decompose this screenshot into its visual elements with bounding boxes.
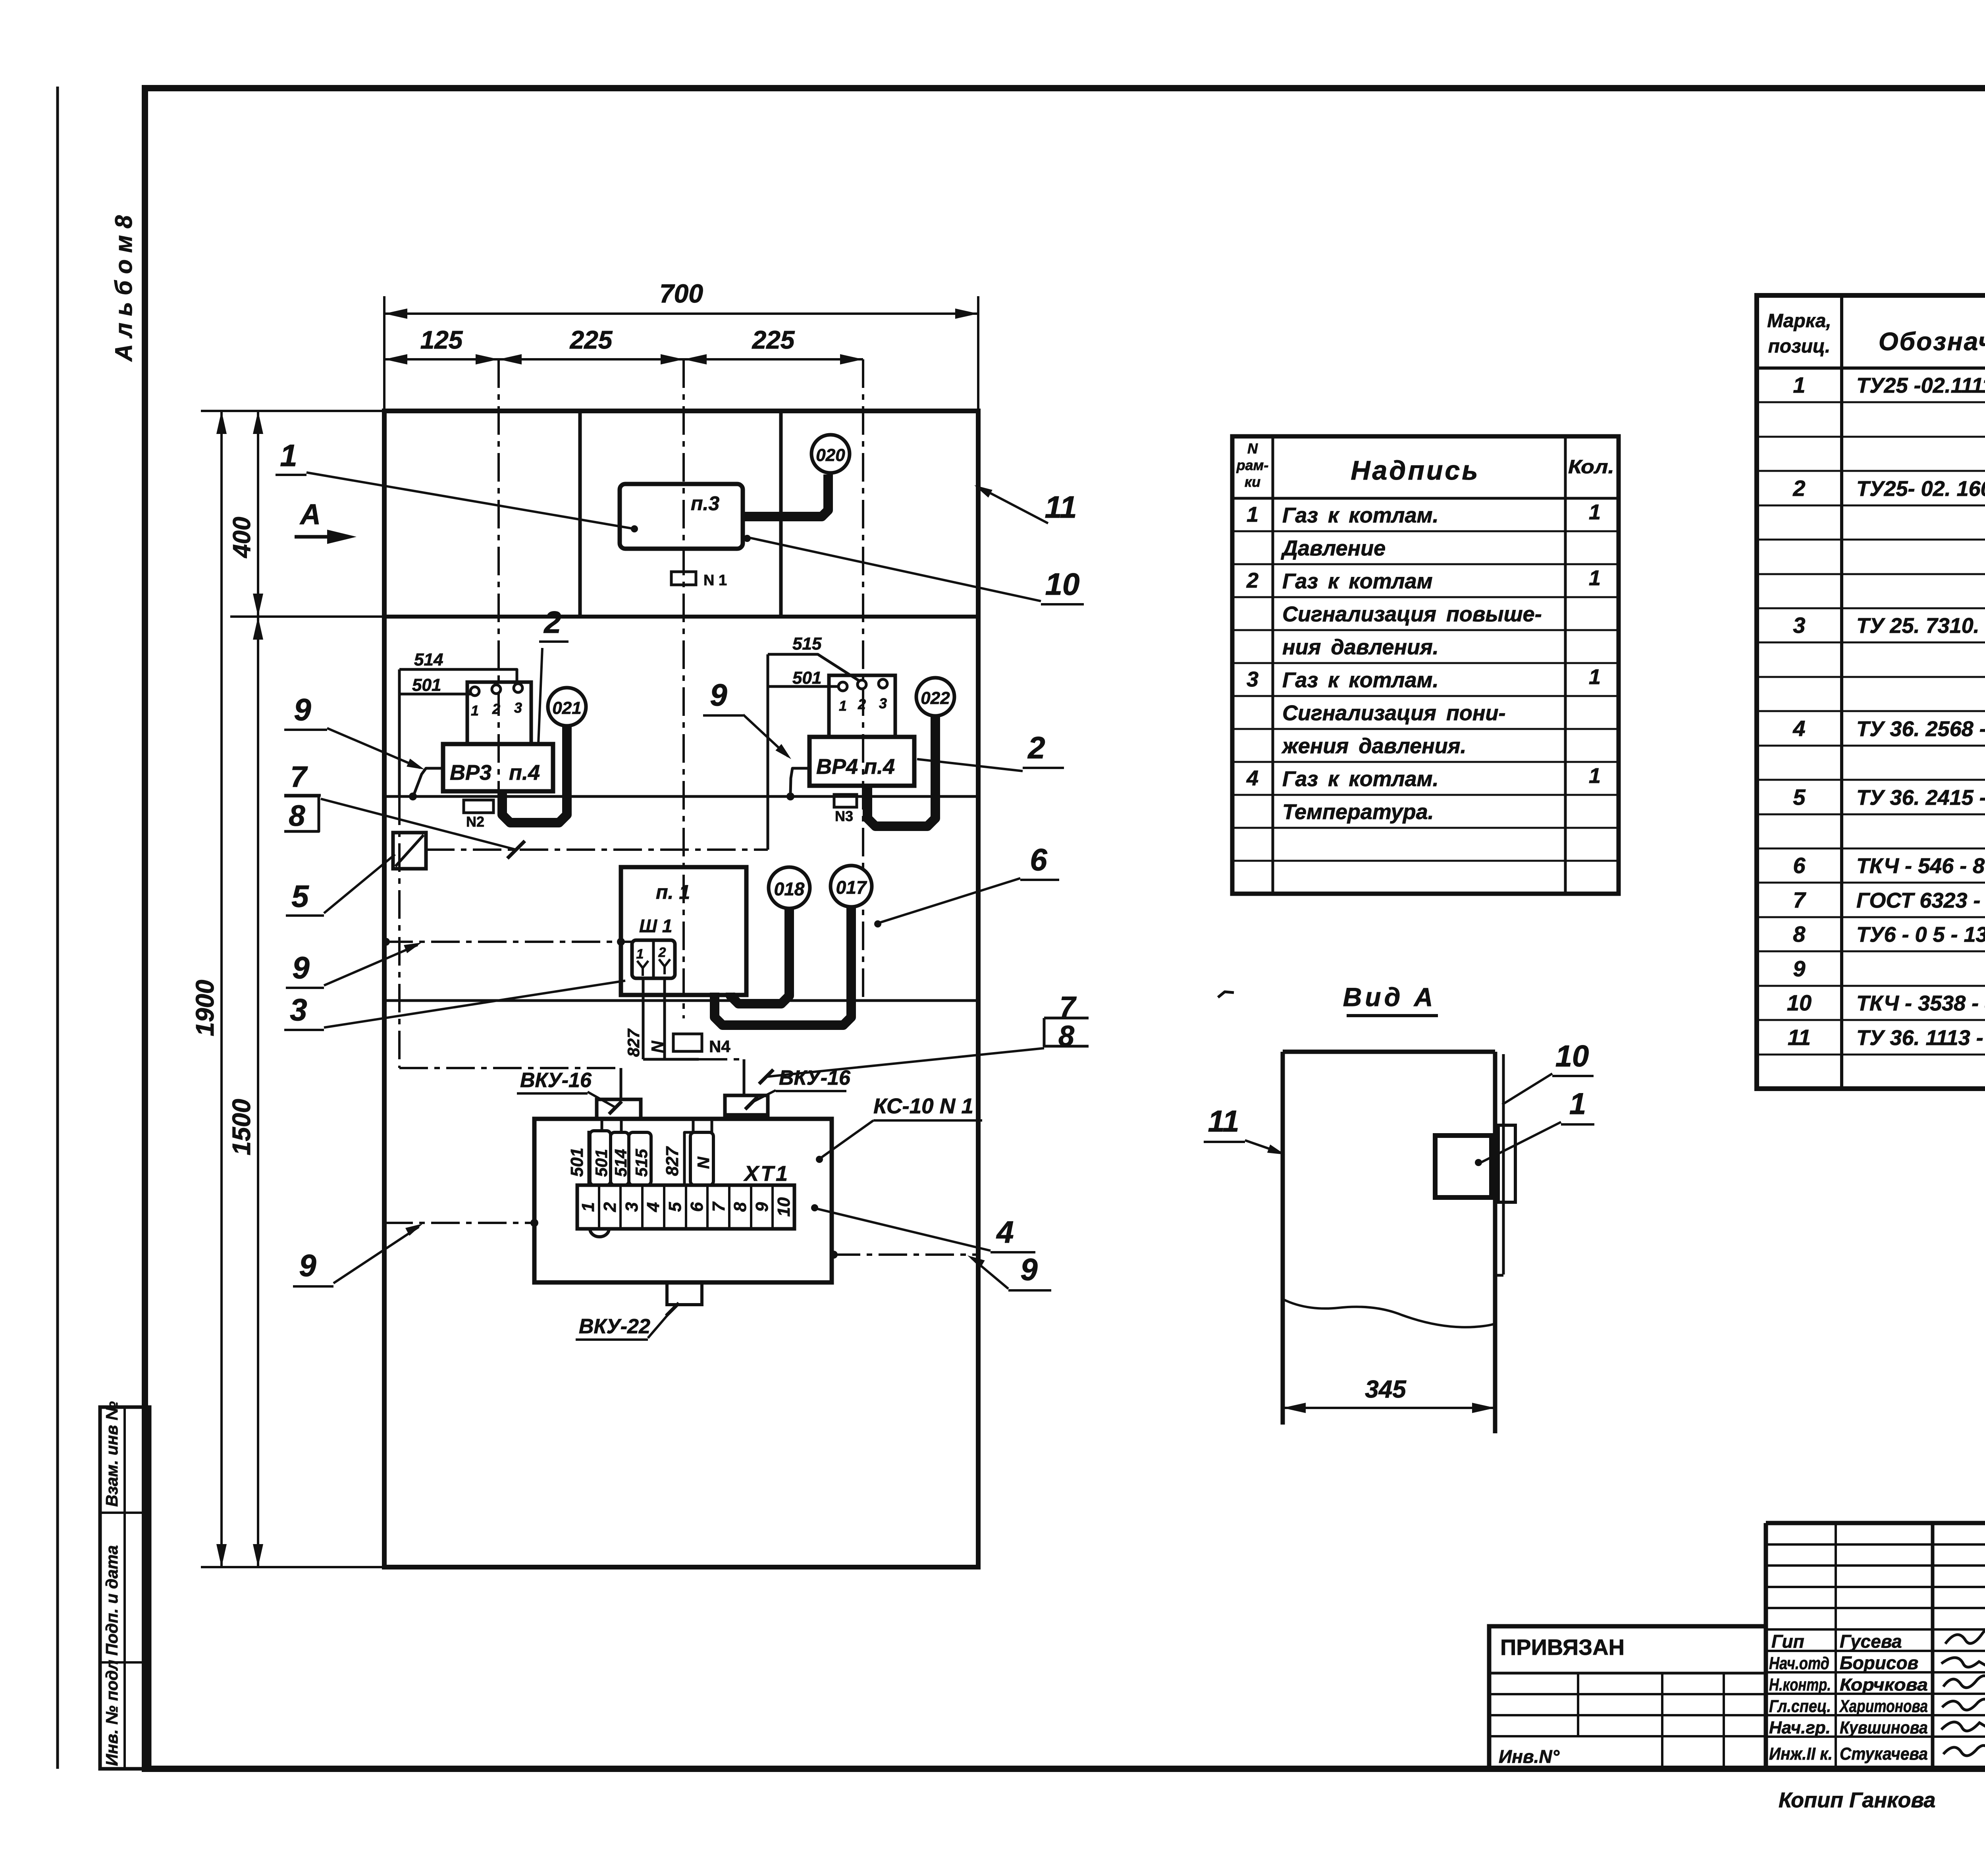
svg-text:3: 3 [1793, 613, 1805, 638]
parts row line 19 [1757, 1019, 1985, 1021]
XT1 divider 5 [685, 1185, 687, 1229]
thick tubing p.3 to 020 [743, 474, 828, 517]
dash-dot bus into Sh1 y2372 [384, 941, 632, 943]
panel horizontal joint y1553 [384, 615, 978, 619]
svg-text:Температура.: Температура. [1282, 800, 1434, 824]
signature squiggle 4 [1942, 1699, 1985, 1710]
svg-text:501: 501 [592, 1149, 611, 1177]
svg-text:7: 7 [1793, 887, 1806, 912]
svg-text:Гип: Гип [1771, 1631, 1804, 1652]
KC-10 junction box [534, 1119, 832, 1282]
parts row line 2 [1757, 436, 1985, 438]
nadpis col line 2 [1564, 436, 1567, 894]
svg-text:1: 1 [839, 698, 847, 714]
dimension 700 line [384, 312, 978, 315]
junction dot VR3 bus [409, 792, 417, 800]
svg-text:ТУ25- 02. 160217 -83: ТУ25- 02. 160217 -83 [1856, 477, 1985, 501]
Sh1 connector box [632, 940, 675, 978]
svg-text:501: 501 [567, 1148, 587, 1177]
VR3 terminal 3 [514, 684, 522, 692]
nadpis row line 8 [1232, 761, 1619, 763]
vid A channel strip [1502, 1054, 1505, 1274]
thick tubing VR3 to 021 [502, 727, 567, 823]
wire tag N4 box [673, 1034, 702, 1051]
svg-text:Взам. инв №: Взам. инв № [102, 1401, 121, 1507]
XT1 divider 6 [706, 1185, 709, 1229]
svg-text:6: 6 [687, 1202, 707, 1212]
svg-text:11: 11 [1045, 490, 1077, 524]
parts row line 13 [1757, 814, 1985, 816]
clamp diagonal [395, 835, 424, 866]
parts row line 7 [1757, 607, 1985, 609]
svg-text:А л ь б о м 8: А л ь б о м 8 [110, 215, 137, 362]
svg-text:515: 515 [632, 1149, 651, 1177]
Sh1 divider [652, 940, 655, 978]
nadpis row line 3 [1232, 596, 1619, 598]
svg-text:1: 1 [578, 1202, 598, 1212]
dimension 400 line [257, 411, 259, 617]
svg-text:Гл.спец.: Гл.спец. [1769, 1697, 1831, 1716]
instrument p.1 box [621, 867, 746, 995]
svg-text:ВКУ-16: ВКУ-16 [779, 1066, 851, 1089]
svg-text:11: 11 [1208, 1105, 1239, 1138]
svg-text:Марка,: Марка, [1767, 310, 1831, 332]
svg-text:Давление: Давление [1281, 536, 1386, 560]
small datum tick [1218, 992, 1234, 997]
svg-text:позиц.: позиц. [1768, 336, 1831, 357]
nadpis row line 2 [1232, 563, 1619, 565]
dimension 700 extension left [383, 296, 385, 411]
svg-text:7: 7 [290, 760, 308, 793]
svg-text:1: 1 [636, 947, 644, 962]
parts row line 9 [1757, 676, 1985, 678]
VR3 relay box [443, 744, 553, 791]
XT1 divider 9 [771, 1185, 774, 1229]
dash-dot bus to VKU16 left y2690 [399, 1067, 619, 1069]
svg-text:345: 345 [1365, 1376, 1407, 1403]
junction dot p.1 edge y2372 [617, 938, 625, 946]
svg-text:020: 020 [816, 445, 845, 465]
svg-text:2: 2 [658, 945, 666, 960]
svg-text:4: 4 [1246, 766, 1258, 790]
svg-text:2: 2 [1246, 569, 1258, 592]
svg-text:7: 7 [709, 1201, 728, 1212]
nadpis table outer box [1232, 436, 1619, 894]
VR4 terminal box [829, 675, 895, 737]
svg-text:10: 10 [1555, 1039, 1589, 1073]
title block top edge [1766, 1521, 1985, 1525]
wire tag N1 box [671, 572, 696, 585]
VR3 terminal box [467, 682, 531, 744]
title block left edge [1764, 1523, 1768, 1769]
svg-text:125: 125 [420, 326, 463, 354]
sig row lines [1766, 1628, 1985, 1631]
svg-text:515: 515 [792, 634, 822, 654]
parts row line 12 [1757, 779, 1985, 781]
svg-text:9: 9 [752, 1202, 772, 1212]
vid A panel right edge [1493, 1052, 1497, 1433]
privyazan table outer [1489, 1626, 1766, 1769]
svg-text:022: 022 [921, 688, 950, 708]
svg-text:2: 2 [600, 1202, 620, 1212]
VKU-16 left wires down [601, 1119, 603, 1132]
leader line 7/8 to bus [321, 799, 516, 850]
wire bus vertical x1006 [398, 669, 401, 796]
XT1 divider 7 [728, 1185, 730, 1229]
svg-text:п. 1: п. 1 [656, 881, 690, 903]
svg-text:5: 5 [291, 879, 309, 914]
svg-text:8: 8 [289, 799, 305, 832]
vid A rear plate [1498, 1125, 1515, 1202]
centerline x2174 [862, 359, 864, 1001]
wire tag N2 box [464, 800, 493, 813]
svg-text:827: 827 [663, 1146, 682, 1176]
dash-dot into KC-10 left y3080 [384, 1222, 534, 1224]
svg-text:10: 10 [1045, 567, 1080, 602]
VR4 terminal 3 [879, 679, 887, 688]
VKU-16 right wires down [733, 1115, 736, 1120]
panel inner bus line y2520 [384, 999, 978, 1002]
wire joint under Sh1 [643, 1058, 699, 1061]
parts table outer box [1757, 295, 1985, 1089]
parts row line 17 [1757, 951, 1985, 952]
svg-text:10: 10 [774, 1197, 794, 1217]
nadpis row line 4 [1232, 629, 1619, 631]
svg-text:3: 3 [622, 1202, 642, 1212]
svg-text:9: 9 [1020, 1252, 1038, 1287]
instrument p.3 box [620, 484, 743, 549]
wire tag box 514 [611, 1132, 629, 1185]
left margin stamp row line 1 [100, 1512, 150, 1514]
nadpis row line 9 [1232, 794, 1619, 796]
svg-text:ТУ6 - 0 5 - 1342 -75: ТУ6 - 0 5 - 1342 -75 [1856, 923, 1985, 947]
wire 827 from Sh1 [642, 978, 645, 1059]
svg-text:017: 017 [836, 877, 867, 898]
svg-text:Газ к котлам.: Газ к котлам. [1282, 668, 1439, 692]
svg-text:1: 1 [1589, 764, 1601, 788]
svg-text:9: 9 [292, 950, 310, 985]
svg-text:ТКЧ - 546 - 86: ТКЧ - 546 - 86 [1856, 854, 1985, 878]
wire bus x1006 dash-dot down [398, 796, 401, 1068]
dash-dot out of KC-10 right y3160 [832, 1253, 978, 1256]
signature squiggle 6 [1943, 1745, 1985, 1756]
svg-text:1: 1 [1589, 566, 1601, 590]
svg-text:ХТ1: ХТ1 [743, 1162, 790, 1186]
svg-text:400: 400 [228, 517, 256, 559]
svg-text:Инж.II к.: Инж.II к. [1769, 1744, 1833, 1764]
svg-text:1: 1 [1569, 1087, 1586, 1121]
sig grid upper row lines [1766, 1543, 1985, 1546]
svg-text:ТКЧ - 3538 - 81: ТКЧ - 3538 - 81 [1856, 991, 1985, 1015]
nadpis row line 6 [1232, 695, 1619, 697]
nadpis row line 10 [1232, 827, 1619, 829]
svg-text:N: N [694, 1156, 713, 1169]
svg-text:Газ к котлам.: Газ к котлам. [1282, 503, 1439, 527]
svg-text:3: 3 [290, 992, 307, 1027]
nadpis header bottom [1232, 497, 1619, 500]
left margin stamp box [100, 1407, 150, 1769]
svg-text:2: 2 [1027, 730, 1045, 765]
thick tubing VR4 to 022 [867, 716, 935, 826]
svg-text:Вид А: Вид А [1343, 982, 1436, 1012]
signature squiggle 3 [1943, 1676, 1985, 1688]
parts header bottom line [1757, 366, 1985, 370]
svg-text:700: 700 [659, 279, 703, 308]
svg-text:514: 514 [414, 650, 443, 669]
svg-text:Сигнализация пони-: Сигнализация пони- [1282, 701, 1506, 725]
svg-text:501: 501 [412, 675, 441, 695]
svg-text:ТУ 25. 7310. 031- 86: ТУ 25. 7310. 031- 86 [1856, 614, 1985, 638]
parts row line 4 [1757, 505, 1985, 507]
wire tag box 515 [629, 1132, 651, 1185]
page left edge line [56, 87, 59, 1769]
svg-text:Подп. и дата: Подп. и дата [102, 1545, 121, 1656]
wire bus vertical x1934 [767, 654, 769, 850]
svg-text:1: 1 [1589, 500, 1601, 524]
junction dot panel edge y2372 [382, 938, 390, 946]
svg-text:9: 9 [299, 1248, 316, 1283]
wire 827 run into strip [684, 1119, 693, 1185]
parts row line 14 [1757, 848, 1985, 850]
cable clamp square item5 [393, 833, 426, 869]
svg-text:5: 5 [1793, 785, 1806, 810]
svg-text:жения давления.: жения давления. [1281, 734, 1467, 758]
svg-text:N4: N4 [709, 1037, 730, 1056]
svg-text:ВР3: ВР3 [450, 761, 491, 785]
wire 514 run [399, 669, 517, 684]
parts row line 20 [1757, 1054, 1985, 1056]
signature squiggle 5 [1941, 1722, 1985, 1731]
svg-text:018: 018 [774, 879, 805, 899]
svg-text:Газ к котлам: Газ к котлам [1282, 569, 1433, 593]
wire tag box N [690, 1132, 713, 1185]
thick tubing 018 to p.1 [730, 908, 789, 1004]
svg-text:3: 3 [1247, 667, 1258, 691]
svg-text:Корчкова: Корчкова [1840, 1675, 1928, 1695]
svg-text:ния давления.: ния давления. [1282, 635, 1439, 659]
svg-text:Гусева: Гусева [1840, 1631, 1902, 1652]
svg-text:1: 1 [471, 702, 479, 719]
wire N run into strip [711, 1119, 713, 1132]
svg-text:ПРИВЯЗАН: ПРИВЯЗАН [1500, 1635, 1625, 1660]
svg-text:1900: 1900 [191, 980, 219, 1036]
wire 501 run left [399, 693, 471, 696]
nadpis row line 7 [1232, 728, 1619, 730]
VKU-16 left connector [597, 1099, 641, 1119]
VR4 terminal 2 [858, 680, 866, 689]
dimension extension top y1035 [201, 410, 384, 412]
svg-text:Инв. № подл: Инв. № подл [102, 1660, 121, 1766]
instrument tag circle 020 [811, 435, 850, 473]
wire 501 outer run [588, 1131, 590, 1185]
dimension 1900 line [220, 411, 223, 1567]
nadpis col line 1 [1272, 436, 1274, 894]
svg-text:Ш 1: Ш 1 [639, 916, 672, 936]
XT1 divider 1 [598, 1185, 600, 1229]
wire dash-dot to VKU16 right [699, 1058, 744, 1060]
svg-text:ТУ 36. 1113 - 84Е: ТУ 36. 1113 - 84Е [1856, 1026, 1985, 1050]
VKU-16 right connector [725, 1095, 768, 1115]
privyazan row lines [1489, 1693, 1766, 1695]
XT1 divider 8 [750, 1185, 752, 1229]
nadpis row line 1 [1232, 530, 1619, 532]
svg-text:Газ к котлам.: Газ к котлам. [1282, 767, 1439, 791]
parts row line 5 [1757, 539, 1985, 541]
svg-text:Харитонова: Харитонова [1839, 1697, 1928, 1716]
vid A break wavy line [1283, 1299, 1495, 1327]
svg-text:2: 2 [858, 696, 866, 712]
svg-text:N2: N2 [466, 814, 484, 830]
svg-text:КС-10 N 1: КС-10 N 1 [873, 1094, 973, 1118]
svg-text:827: 827 [624, 1028, 643, 1057]
parts row line 6 [1757, 573, 1985, 575]
dimension 1500 line [257, 617, 259, 1567]
wire N from Sh1 [663, 978, 666, 1059]
svg-text:4: 4 [644, 1202, 663, 1212]
svg-text:6: 6 [1030, 842, 1047, 877]
svg-text:225: 225 [570, 326, 613, 354]
wire VR3 left stub [414, 768, 443, 794]
svg-text:225: 225 [752, 326, 795, 354]
svg-text:ВКУ-16: ВКУ-16 [520, 1069, 592, 1092]
dimension 700 extension right [977, 296, 979, 411]
svg-text:Кувшинова: Кувшинова [1840, 1718, 1928, 1737]
dimension extension bottom y3947 [201, 1566, 384, 1568]
wire down to VKU16 right [743, 1059, 746, 1095]
svg-text:10: 10 [1787, 990, 1812, 1015]
VR3 terminal 2 [492, 685, 501, 694]
svg-text:2: 2 [492, 701, 500, 717]
parts row line 1 [1757, 401, 1985, 403]
instrument tag circle 017 [715, 908, 851, 1025]
dimension extension mid y1553 [230, 615, 384, 618]
panel inner bus line y2006 [384, 795, 978, 798]
svg-text:ки: ки [1245, 474, 1260, 490]
svg-text:9: 9 [294, 692, 311, 727]
signature squiggle 2 [1941, 1658, 1985, 1670]
privyazan header line [1489, 1672, 1766, 1675]
wire 501 run right [768, 685, 838, 688]
svg-text:ВКУ-22: ВКУ-22 [579, 1315, 650, 1338]
svg-text:Нач.отд: Нач.отд [1769, 1654, 1829, 1673]
parts col line 1 [1840, 295, 1843, 1089]
sig grid verticals [1835, 1523, 1837, 1769]
privyazan col lines [1577, 1673, 1579, 1736]
parts row line 15 [1757, 882, 1985, 884]
Sh1 fork symbols [637, 961, 648, 968]
svg-text:1: 1 [280, 438, 297, 473]
wire 515 run [768, 654, 859, 681]
dimension 125/225/225 line [384, 358, 863, 361]
leader line right 7/8 to VKU16 [766, 1048, 1044, 1077]
svg-text:501: 501 [792, 668, 821, 688]
svg-text:N3: N3 [835, 808, 853, 824]
svg-text:п.3: п.3 [691, 492, 719, 515]
VR4 relay box [809, 737, 914, 786]
vid A panel left edge [1281, 1052, 1285, 1425]
svg-text:Надпись: Надпись [1351, 455, 1480, 486]
parts row line 16 [1757, 916, 1985, 918]
svg-text:Борисов: Борисов [1840, 1652, 1918, 1673]
svg-text:5: 5 [665, 1202, 685, 1212]
panel outline (stand front view) [384, 411, 978, 1567]
svg-text:А: А [299, 499, 321, 530]
vid A dim 345 line [1283, 1407, 1495, 1409]
svg-text:1: 1 [1793, 372, 1805, 397]
XT1 divider 4 [663, 1185, 665, 1229]
svg-text:3: 3 [879, 695, 887, 711]
svg-text:Н.контр.: Н.контр. [1769, 1675, 1831, 1695]
svg-text:Кол.: Кол. [1568, 457, 1614, 478]
svg-text:1500: 1500 [227, 1099, 256, 1155]
wire down to VKU16 left [620, 1068, 622, 1099]
svg-text:N: N [648, 1040, 667, 1053]
svg-text:п.4: п.4 [509, 761, 540, 785]
svg-text:021: 021 [552, 698, 581, 718]
svg-text:Стукачева: Стукачева [1840, 1744, 1928, 1764]
XT1 divider 3 [641, 1185, 644, 1229]
centerline x1722 [682, 359, 685, 1018]
svg-text:N 1: N 1 [703, 572, 727, 589]
signature squiggle 1 [1945, 1628, 1985, 1644]
svg-text:ТУ 36. 2568 - 83: ТУ 36. 2568 - 83 [1856, 717, 1985, 741]
dash-dot bus y2140 [426, 848, 768, 851]
VR4 terminal 1 [838, 682, 847, 691]
nadpis row line 11 [1232, 860, 1619, 862]
svg-text:Обозначение: Обозначение [1879, 327, 1985, 356]
svg-text:ГОСТ 6323 - 79: ГОСТ 6323 - 79 [1856, 889, 1985, 912]
svg-text:514: 514 [611, 1149, 630, 1177]
vid A naporometr block [1435, 1136, 1492, 1197]
svg-text:Копип Ганкова: Копип Ганкова [1779, 1788, 1935, 1812]
svg-text:6: 6 [1793, 853, 1806, 878]
parts row line 3 [1757, 470, 1985, 472]
vid A panel top edge [1283, 1050, 1495, 1054]
svg-text:Сигнализация повыше-: Сигнализация повыше- [1282, 602, 1542, 626]
wire VR4 left stub [790, 768, 809, 794]
svg-text:ТУ25 -02.111116 - 77: ТУ25 -02.111116 - 77 [1856, 374, 1985, 397]
sub-panel vertical left x1461 [578, 411, 582, 617]
svg-text:Нач.гр.: Нач.гр. [1769, 1718, 1831, 1737]
svg-text:2: 2 [543, 605, 561, 640]
XT1 divider 2 [619, 1185, 622, 1229]
svg-text:2: 2 [1792, 476, 1805, 501]
left margin stamp divider [123, 1407, 126, 1769]
wire tag N3 box [834, 794, 857, 807]
svg-text:4: 4 [1792, 716, 1805, 741]
svg-text:ТУ 36. 2415 - 81: ТУ 36. 2415 - 81 [1856, 786, 1985, 810]
svg-text:рам-: рам- [1236, 457, 1269, 473]
parts row line 18 [1757, 985, 1985, 987]
svg-text:9: 9 [1793, 956, 1805, 981]
parts row line 11 [1757, 745, 1985, 747]
VR3 terminal 1 [470, 687, 479, 696]
svg-text:9: 9 [710, 677, 727, 712]
svg-text:N: N [1247, 440, 1258, 457]
svg-text:11: 11 [1788, 1025, 1811, 1050]
sub-panel vertical right x1967 [779, 411, 783, 617]
svg-text:4: 4 [996, 1215, 1014, 1249]
svg-text:1: 1 [1589, 665, 1601, 689]
XT1 terminal strip [577, 1185, 794, 1229]
svg-text:8: 8 [1793, 922, 1806, 947]
svg-text:Инв.N°: Инв.N° [1499, 1746, 1560, 1767]
parts row line 8 [1757, 642, 1985, 644]
junction dot VR4 bus [786, 792, 794, 800]
parts row line 10 [1757, 710, 1985, 712]
nadpis row line 5 [1232, 662, 1619, 664]
svg-text:8: 8 [730, 1202, 750, 1212]
